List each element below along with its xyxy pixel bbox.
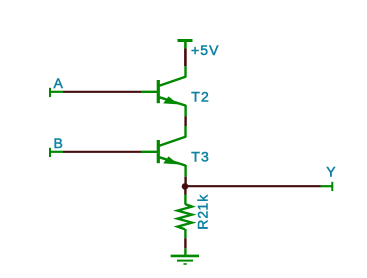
svg-text:R2: R2 <box>195 210 211 230</box>
svg-text:A: A <box>54 75 64 91</box>
svg-text:Y: Y <box>326 163 336 179</box>
svg-text:T3: T3 <box>191 148 210 164</box>
svg-text:+5V: +5V <box>191 42 220 58</box>
svg-text:T2: T2 <box>191 88 210 104</box>
svg-text:1k: 1k <box>195 194 211 211</box>
svg-text:B: B <box>54 135 64 151</box>
